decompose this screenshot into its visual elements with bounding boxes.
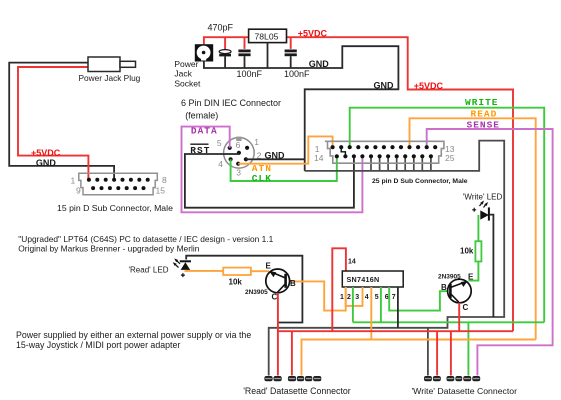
capacitor C1 470pF red stub <box>224 37 226 51</box>
wire purple DATA net: DIN pin5 to 25-pin bottom pin 17 <box>182 127 363 213</box>
voltage regulator ground pin <box>267 43 269 68</box>
svg-text:2N3905: 2N3905 <box>438 274 461 281</box>
svg-text:"Upgraded" LPT64 (C64S) PC to: "Upgraded" LPT64 (C64S) PC to datasette … <box>18 234 273 244</box>
svg-text:6: 6 <box>385 294 389 301</box>
svg-text:+5VDC: +5VDC <box>414 81 444 91</box>
wire orange resistor to transistor emitter <box>251 270 269 272</box>
wire green IC pin6 to write transistor base <box>389 287 448 311</box>
svg-text:5: 5 <box>375 294 379 301</box>
read LED symbol <box>173 258 191 270</box>
wire red top rail right to +5VDC drop <box>287 37 513 331</box>
power jack socket circle <box>197 46 211 60</box>
wire green resistor to write transistor emitter <box>469 262 479 281</box>
wire purple SENSE net from 25-pin top pin12 down right side to write pad 6 <box>427 129 553 376</box>
read LED plus sign <box>181 273 185 277</box>
wire red +5V bus <box>278 330 513 332</box>
svg-text:SENSE: SENSE <box>467 120 501 131</box>
wire orange READ net from 25-pin top pin10 to right rail down to orange bus <box>410 118 536 339</box>
pads middle bands write <box>425 378 480 379</box>
svg-text:1: 1 <box>340 294 344 301</box>
wire black RST net: DIN pin6 to 25-pin bottom pin 16 <box>185 154 354 208</box>
wire green bus to write pad5 and WRITE rail <box>353 321 544 323</box>
connector J3 jog pin2 to pin16 <box>341 147 345 156</box>
wire orange ATN net: DIN pin3 to 25-pin top pin 1 <box>238 136 332 163</box>
DIN pin 4 <box>229 157 233 161</box>
svg-text:Power: Power <box>174 59 198 69</box>
wire green IC pin5 to green bus <box>380 287 382 322</box>
resistor R2 10k (write) <box>475 241 481 261</box>
svg-text:GND: GND <box>265 150 286 160</box>
connector J2 DIN circle <box>224 138 255 169</box>
read datasette pads <box>264 376 321 381</box>
DIN pin 6 <box>237 151 241 155</box>
svg-text:Power supplied by either an ex: Power supplied by either an external pow… <box>16 330 251 340</box>
connector J1 15-pin D-sub outline <box>79 173 158 195</box>
wire green CLK net: DIN pin4 to 25-pin bottom pin 14 <box>231 156 337 181</box>
capacitor C3 100nF red stub <box>290 37 292 49</box>
wire red write transistor collector to +5V bus <box>458 303 460 331</box>
svg-text:100nF: 100nF <box>237 69 263 79</box>
svg-text:B: B <box>441 283 447 292</box>
svg-text:CLK: CLK <box>252 173 272 184</box>
svg-text:2: 2 <box>257 150 262 160</box>
wire orange read transistor base to IC pin1 loop <box>291 281 346 310</box>
svg-text:E: E <box>266 262 272 271</box>
wire orange read LED anode to resistor <box>185 270 223 271</box>
svg-text:78L05: 78L05 <box>255 31 279 41</box>
wire black GND from DIN pin2 to GND bus <box>246 158 305 160</box>
svg-text:8: 8 <box>162 175 167 185</box>
svg-text:C: C <box>463 303 469 312</box>
wire red drop write pad2 <box>436 331 438 375</box>
voltage regulator U2 78L05 box <box>249 29 287 42</box>
connector J3 25-pin D-sub outline <box>325 141 444 163</box>
svg-text:GND: GND <box>309 59 330 69</box>
svg-text:9: 9 <box>76 186 81 196</box>
svg-text:GND: GND <box>374 81 395 91</box>
svg-text:+5VDC: +5VDC <box>298 29 328 39</box>
connector J3 pins bottom row <box>335 154 433 158</box>
wire red drop read pad3 <box>291 331 293 375</box>
transistor Q1 2N3905 (read) <box>266 269 290 293</box>
capacitor C1 470pF plates <box>219 50 231 54</box>
svg-text:'Read' Datasette Connector: 'Read' Datasette Connector <box>243 386 351 396</box>
DIN pin 2 <box>244 157 248 161</box>
wire orange IC pin4 to orange bus <box>370 287 372 340</box>
power jack plug tip <box>120 61 136 67</box>
DIN pin 5 <box>228 146 232 150</box>
svg-text:1: 1 <box>254 137 259 147</box>
connector J1 pins top row <box>87 178 150 182</box>
wire black write LED cathode down to GND jog <box>490 215 494 317</box>
wire black IC pin7 to GND bus <box>397 287 399 328</box>
wire red read transistor collector down to pad2 <box>277 293 279 376</box>
svg-text:14: 14 <box>348 258 356 265</box>
capacitor C3 100nF plates <box>285 50 297 53</box>
connector J3 pins top row <box>331 145 438 149</box>
wire green WRITE net from 25-pin top pin3 to right rail down to green bus <box>350 108 545 323</box>
capacitor C2 100nF red stub <box>244 37 246 49</box>
write datasette pads <box>424 376 480 381</box>
svg-text:5: 5 <box>217 138 222 148</box>
svg-text:Jack: Jack <box>174 68 192 78</box>
pads middle bands read <box>265 378 320 379</box>
DIN pin 1 <box>245 146 249 150</box>
svg-text:+5VDC: +5VDC <box>31 148 61 158</box>
connector J1 pins bottom row <box>91 186 145 190</box>
svg-text:B: B <box>290 279 296 288</box>
svg-text:2N3905: 2N3905 <box>245 289 268 296</box>
svg-text:6 Pin DIN IEC Connector: 6 Pin DIN IEC Connector <box>181 98 281 108</box>
wire GND rail with staircase to GND bus <box>203 46 398 171</box>
svg-text:1: 1 <box>71 176 76 186</box>
IC U1 SN7416N box <box>342 271 403 287</box>
wire red +5VDC from power jack plug to 15-pin connector pin 1 <box>18 64 127 178</box>
25-pin GND stubs pins 18-25 <box>371 157 431 171</box>
wire red drop write pad3 <box>450 331 452 375</box>
power jack socket notch <box>201 57 206 60</box>
svg-text:Original by Markus Brenner - u: Original by Markus Brenner - upgraded by… <box>18 244 199 254</box>
svg-text:10k: 10k <box>460 247 474 256</box>
svg-text:470pF: 470pF <box>208 23 234 33</box>
wire overlays inside DIN circle <box>223 153 239 155</box>
wire orange READ bus <box>302 340 536 376</box>
svg-text:READ: READ <box>471 109 498 120</box>
svg-text:100nF: 100nF <box>284 69 310 79</box>
svg-text:Socket: Socket <box>174 79 201 89</box>
read LED cathode wire to collector junction <box>186 256 302 323</box>
DIN pin 3 <box>236 162 240 166</box>
svg-text:15: 15 <box>156 186 166 196</box>
power jack socket center pin <box>202 51 206 55</box>
connector J2 DIN notch <box>236 137 241 141</box>
svg-text:GND: GND <box>36 158 57 168</box>
power jack socket body <box>195 44 213 61</box>
svg-text:(female): (female) <box>185 111 218 121</box>
svg-text:4: 4 <box>365 294 369 301</box>
wire green IC pin2 to green bus <box>352 287 354 322</box>
svg-text:RST: RST <box>190 145 210 156</box>
wire GND bus: under 25-pin, right side box, down to write transistor area <box>269 141 505 376</box>
svg-text:3: 3 <box>355 294 359 301</box>
svg-text:Power Jack Plug: Power Jack Plug <box>79 73 141 83</box>
transistor Q2 2N3905 (write) <box>448 279 472 303</box>
wire black from power jack plug to 15-pin connector pin 4 <box>9 63 114 179</box>
write LED plus sign <box>472 208 476 212</box>
svg-text:25: 25 <box>445 153 455 163</box>
svg-text:'Read' LED: 'Read' LED <box>129 266 169 275</box>
svg-text:15 pin D Sub Connector, Male: 15 pin D Sub Connector, Male <box>57 203 173 213</box>
capacitor C2 100nF plates <box>238 50 250 53</box>
resistor R1 10k (read) <box>223 268 251 275</box>
write LED symbol <box>480 201 490 221</box>
wire orange IC pin1-pin3 link <box>346 287 363 306</box>
power jack socket ground stub <box>203 61 205 68</box>
svg-text:2: 2 <box>347 294 351 301</box>
svg-text:7: 7 <box>392 294 396 301</box>
svg-text:SN7416N: SN7416N <box>347 275 380 284</box>
svg-text:15-way Joystick / MIDI port po: 15-way Joystick / MIDI port power adapte… <box>16 340 180 350</box>
wire green write LED anode down to resistor <box>477 215 479 241</box>
svg-text:25 pin D Sub Connector, Male: 25 pin D Sub Connector, Male <box>372 178 468 185</box>
svg-text:'Write' LED: 'Write' LED <box>463 193 503 202</box>
svg-text:3: 3 <box>236 167 241 177</box>
svg-text:14: 14 <box>314 153 324 163</box>
svg-text:WRITE: WRITE <box>465 97 499 108</box>
svg-text:E: E <box>468 273 474 282</box>
power jack plug body <box>88 57 120 72</box>
wire red top rail left <box>204 37 248 45</box>
svg-text:10k: 10k <box>229 278 243 287</box>
svg-text:6: 6 <box>236 140 241 150</box>
wire gray GND drop to write pad 1 <box>427 328 429 376</box>
svg-text:C: C <box>272 293 278 302</box>
svg-text:4: 4 <box>218 159 223 169</box>
wire red +5V to IC pin 14 <box>332 248 346 331</box>
svg-text:DATA: DATA <box>191 126 218 137</box>
svg-text:'Write' Datasette Connector: 'Write' Datasette Connector <box>412 386 518 396</box>
